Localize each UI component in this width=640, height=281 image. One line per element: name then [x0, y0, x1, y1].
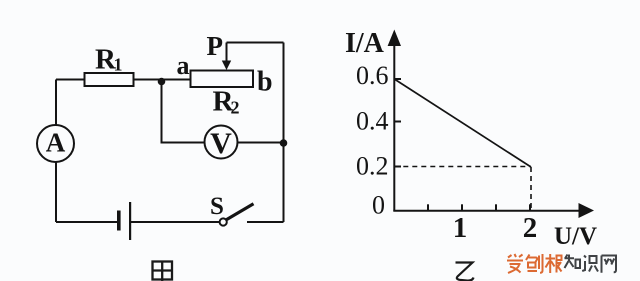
svg-text:a: a — [177, 51, 190, 80]
svg-text:0.2: 0.2 — [356, 152, 389, 181]
svg-text:2: 2 — [231, 98, 240, 118]
svg-text:b: b — [257, 67, 273, 98]
svg-text:S: S — [210, 193, 224, 220]
svg-text:I/A: I/A — [345, 28, 385, 59]
svg-text:U/V: U/V — [554, 223, 597, 250]
svg-text:A: A — [46, 128, 66, 158]
svg-text:0.6: 0.6 — [356, 61, 389, 90]
svg-text:1: 1 — [453, 212, 468, 244]
svg-text:0.4: 0.4 — [356, 107, 389, 136]
svg-text:V: V — [210, 127, 232, 160]
svg-text:0: 0 — [372, 191, 385, 220]
svg-text:1: 1 — [114, 55, 123, 75]
svg-text:2: 2 — [523, 212, 538, 244]
svg-text:P: P — [207, 31, 224, 61]
